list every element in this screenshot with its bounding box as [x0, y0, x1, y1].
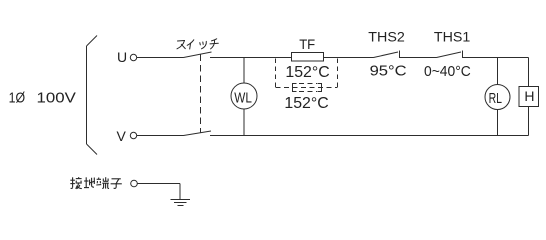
brace (supply bracket)	[87, 36, 98, 155]
svg-text:152°C: 152°C	[285, 64, 329, 81]
wire THS1 to corner	[463, 57, 529, 59]
terminal U circle	[130, 54, 136, 60]
ground bar 1	[171, 199, 191, 201]
thermostat THS1 contact	[462, 51, 464, 59]
terminal V circle	[130, 132, 136, 138]
svg-text:V: V	[117, 128, 127, 144]
svg-text:U: U	[117, 49, 127, 65]
svg-text:H: H	[524, 88, 534, 104]
svg-text:152°C: 152°C	[284, 95, 328, 112]
svg-text:TF: TF	[299, 36, 315, 52]
lamp RL	[485, 85, 510, 110]
thermostat THS1 blade	[437, 52, 462, 58]
ground bar 3	[178, 205, 184, 207]
wire THS2 to THS1	[400, 57, 437, 59]
heater H body	[519, 87, 539, 107]
svg-text:0~40°C: 0~40°C	[424, 63, 471, 80]
switch mechanical link (dashed)	[200, 55, 202, 134]
wire TF to THS2	[324, 57, 374, 59]
TF dashed enclosure bottom side	[276, 87, 338, 89]
wire U to switch	[137, 57, 184, 59]
lamp WL branch wire bottom	[243, 109, 245, 136]
switch pole top (blade)	[184, 52, 212, 58]
label 1ø 100V	[9, 90, 76, 107]
lamp RL branch wire bottom	[497, 110, 499, 136]
lamp WL	[231, 83, 257, 109]
wire V to switch	[137, 135, 184, 137]
TF dashed enclosure left side	[275, 59, 277, 88]
lamp WL branch wire top	[243, 58, 245, 84]
wire right drop to heater	[528, 58, 530, 87]
svg-text:RL: RL	[489, 91, 502, 107]
label earth terminal (kanji setchi tanshi)	[70, 177, 122, 189]
TF dashed enclosure right side	[337, 59, 339, 88]
svg-text:1Ø: 1Ø	[9, 90, 26, 107]
thermal fuse TF body	[292, 53, 324, 62]
switch pole bottom (blade)	[184, 131, 212, 136]
earth terminal circle	[131, 180, 138, 187]
svg-text:100V: 100V	[37, 90, 76, 107]
wire earth terminal drop	[179, 184, 181, 200]
lamp RL branch wire top	[497, 58, 499, 85]
label switch (katakana suicchi)	[177, 39, 218, 49]
thermostat THS2 blade	[374, 52, 399, 58]
wire earth terminal horizontal	[138, 183, 181, 185]
svg-text:95°C: 95°C	[370, 62, 407, 79]
wire switch to TF	[210, 57, 292, 59]
wire heater to bottom	[528, 107, 530, 136]
spare thermal fuse (dashed body)	[293, 84, 297, 92]
svg-text:THS2: THS2	[368, 29, 405, 45]
ground bar 2	[174, 202, 187, 204]
bottom wire	[210, 135, 529, 137]
svg-text:WL: WL	[234, 89, 252, 106]
svg-text:THS1: THS1	[434, 29, 471, 45]
thermostat THS2 contact	[399, 51, 401, 59]
